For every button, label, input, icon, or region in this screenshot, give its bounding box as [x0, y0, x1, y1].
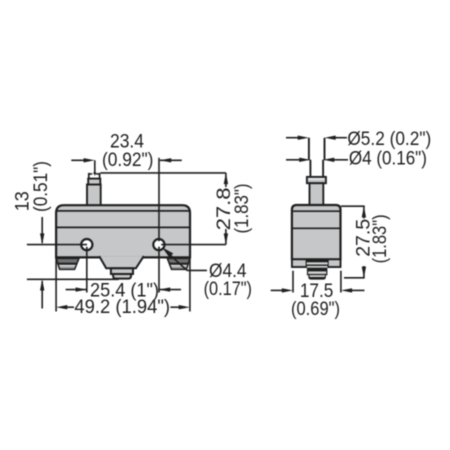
plunger released-position ticks [89, 173, 100, 179]
dimension 13 upper tail [41, 217, 43, 243]
switch body (side view) [292, 205, 341, 259]
dimension 23.4 right arrow [160, 159, 182, 161]
dimension 13 lower tail [41, 281, 43, 309]
dimension 25.4 right arrow [159, 289, 181, 291]
svg-text:(0.51"): (0.51") [30, 161, 52, 212]
svg-text:(1.83"): (1.83") [231, 184, 253, 234]
extension line through right hole upper [158, 158, 160, 241]
svg-text:(0.92"): (0.92") [102, 149, 154, 171]
dimension 27.8 dim line top [225, 173, 227, 187]
plunger shaft (front view) [87, 185, 101, 207]
bushing thread stack [306, 259, 329, 279]
left terminal [55, 258, 80, 269]
centerline left segment [27, 244, 87, 246]
dimension 17.5 right extension line [340, 271, 342, 293]
dimension 17.5 left arrow [271, 289, 283, 291]
dimension 49.2 right extension line [189, 257, 191, 311]
dimension 49.2 left arrow [56, 305, 67, 309]
dimension O4 right arrow [323, 158, 334, 162]
dimension 23.4 left arrow [71, 159, 86, 161]
dimension 27.5 dim line top [363, 206, 365, 218]
centerline right segment [161, 244, 226, 246]
switch body (front view) [56, 205, 190, 257]
dimension O5.2 right arrow [325, 136, 336, 140]
mounting hole right [153, 239, 164, 250]
dimension 49.2 right arrow [179, 305, 190, 309]
svg-text:Ø5.2 (0.2"): Ø5.2 (0.2") [347, 128, 431, 150]
dimension 27.8 top reference line [100, 172, 225, 174]
center terminal lower part [113, 274, 131, 279]
dimension 17.5 left extension line [292, 271, 294, 293]
dimension 27.8 dim line bottom [225, 229, 227, 245]
side body seam 2 [292, 227, 341, 229]
dimension 17.5 right arrow [341, 288, 352, 292]
dimension 27.5 dim line bottom [363, 266, 365, 278]
body seam line 1 [56, 210, 190, 212]
leader arrow to right hole (O4.4) [162, 247, 173, 257]
dimension 23.4 bent leader to plunger [94, 160, 96, 172]
dimension 27.5 top reference line [341, 205, 365, 207]
plunger released-position dashed top [88, 173, 100, 175]
center terminal upper flange [111, 268, 133, 274]
dimension 49.2 left extension line [55, 257, 57, 311]
right terminal [166, 258, 191, 269]
body seam line 2 [56, 226, 190, 228]
dimension O5.2 left arrow [286, 137, 299, 139]
plunger shaft (side view) [310, 183, 324, 206]
base plate (side view) [292, 259, 341, 267]
dimension 13 bottom reference line [27, 278, 119, 280]
extension line below left hole [86, 247, 88, 293]
svg-text:(1.83"): (1.83") [369, 214, 391, 263]
mounting hole left [81, 239, 92, 250]
plunger outline lower (O4) [310, 160, 323, 177]
dimension 27.5 bottom reference line [344, 277, 365, 279]
side body seam 1 [292, 210, 341, 212]
svg-text:Ø4 (0.16"): Ø4 (0.16") [349, 148, 427, 170]
plunger outline upper (O5.2) [309, 138, 325, 161]
dimension O4 left arrow [286, 159, 300, 161]
svg-text:(0.17"): (0.17") [204, 278, 252, 300]
svg-text:49.2 (1.94"): 49.2 (1.94") [74, 296, 170, 318]
dimension 25.4 left arrow [66, 289, 87, 291]
plunger cap (front view) [88, 179, 100, 185]
bottom center protrusion [99, 256, 144, 268]
svg-text:(0.69"): (0.69") [291, 298, 340, 320]
plunger cap (side view) [307, 177, 326, 183]
extension line through right hole lower [158, 247, 160, 293]
